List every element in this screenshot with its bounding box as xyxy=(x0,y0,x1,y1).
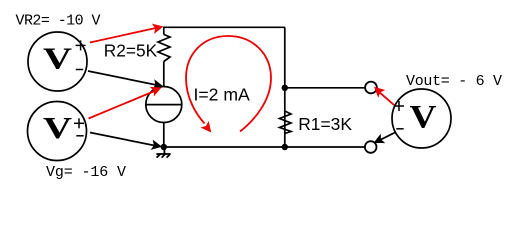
svg-text:V: V xyxy=(410,99,437,135)
wire red probe Vout+ to top terminal xyxy=(378,91,394,105)
svg-text:Vout= - 6 V: Vout= - 6 V xyxy=(406,73,502,90)
node junction dot right-top xyxy=(282,85,288,91)
voltmeter VR2 xyxy=(28,32,87,91)
wire to top terminal xyxy=(285,87,365,89)
ground xyxy=(156,147,170,158)
red current loop xyxy=(186,36,271,132)
wire black probe Vg- to ground node xyxy=(90,133,157,147)
wire red probe VR2+ to top corner xyxy=(90,28,158,43)
svg-text:R2=5K: R2=5K xyxy=(104,41,158,61)
wire R2 top stub xyxy=(163,27,165,35)
red loop arrowhead xyxy=(201,121,216,136)
svg-text:Vg= -16 V: Vg= -16 V xyxy=(46,164,126,181)
wire current source to ground node xyxy=(163,123,165,148)
terminal bottom open circle xyxy=(365,141,377,153)
svg-text:R1=3K: R1=3K xyxy=(298,114,352,134)
wire right vertical xyxy=(284,27,286,147)
wire to bottom terminal xyxy=(285,146,365,148)
node junction dot right-bottom xyxy=(282,144,288,150)
wire top horizontal xyxy=(164,26,285,28)
resistor R2 xyxy=(158,35,170,62)
current source I1 xyxy=(146,87,182,123)
wire R2 to current source xyxy=(163,62,165,87)
wire black probe Vout- to bottom terminal xyxy=(378,132,396,141)
wire black probe VR2- to current source top xyxy=(88,71,159,86)
resistor R1 xyxy=(280,111,292,134)
svg-text:VR2= -10 V: VR2= -10 V xyxy=(16,13,101,30)
voltmeter Vg xyxy=(28,102,87,161)
voltmeter Vout xyxy=(392,89,451,148)
svg-text:V: V xyxy=(43,110,73,145)
svg-text:V: V xyxy=(43,41,73,76)
wire red probe Vg+ to current source top xyxy=(89,90,158,119)
terminal top open circle xyxy=(365,82,377,94)
svg-text:I=2 mA: I=2 mA xyxy=(194,85,251,105)
node junction dot ground xyxy=(161,144,167,150)
wire bottom horizontal xyxy=(164,146,285,148)
